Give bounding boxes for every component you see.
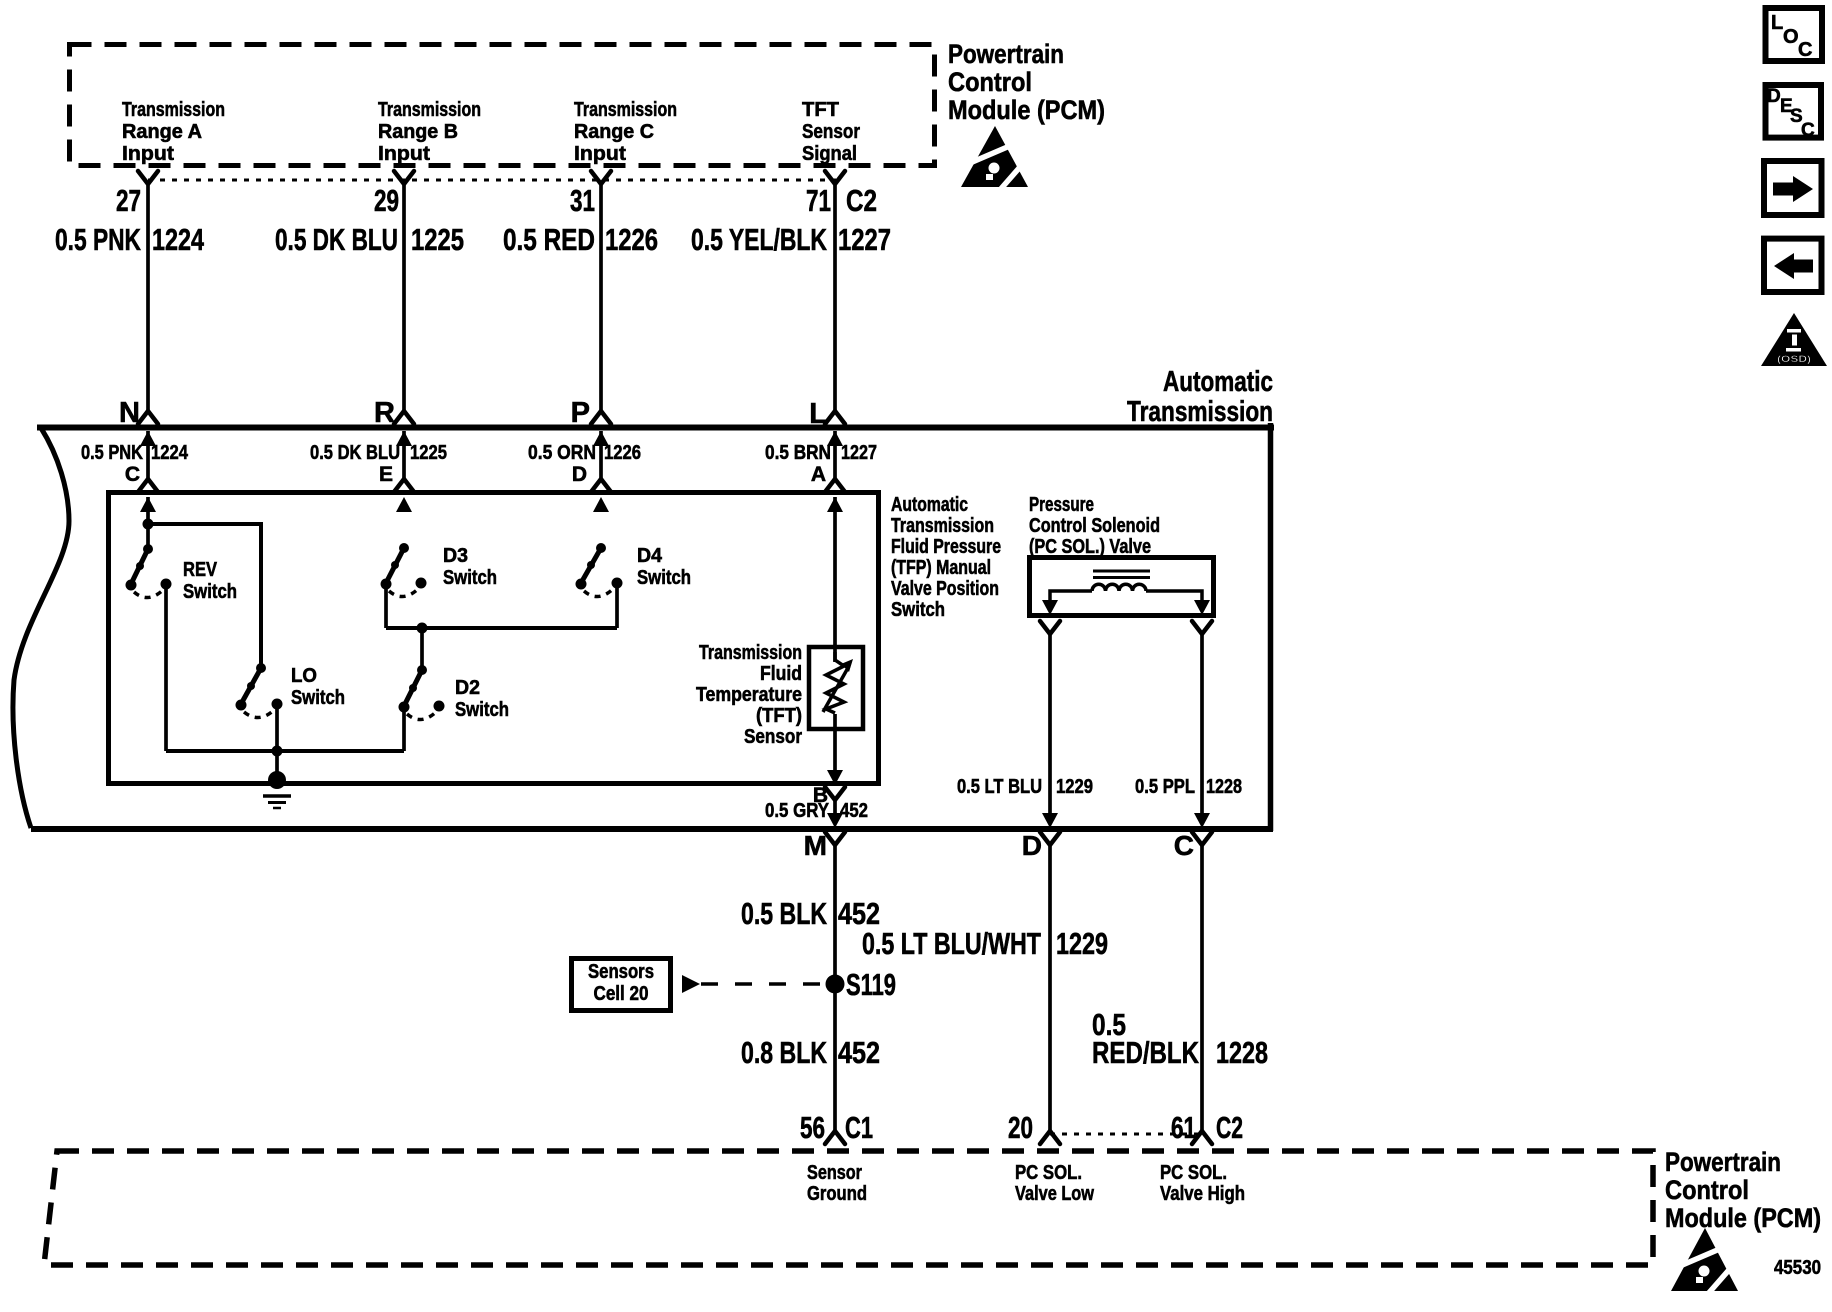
ESD symbol top	[961, 126, 1028, 191]
fork pin 61	[1192, 1131, 1212, 1144]
label Automatic Transmission Fluid Pressure (TFP) Manual Valve Position Switch	[891, 494, 1001, 621]
fork pin 71	[825, 171, 845, 184]
svg-text:1229: 1229	[1056, 926, 1108, 961]
svg-text:Transmission: Transmission	[1127, 396, 1273, 428]
svg-text:Powertrain: Powertrain	[948, 39, 1064, 69]
wire 0.5 YEL/BLK 1227	[833, 184, 837, 411]
svg-text:C: C	[1174, 830, 1194, 861]
svg-text:D: D	[572, 463, 587, 486]
TFT sensor thermistor element	[823, 652, 853, 713]
svg-text:RED/BLK: RED/BLK	[1092, 1035, 1199, 1070]
svg-text:1227: 1227	[838, 222, 891, 257]
svg-text:31: 31	[570, 183, 595, 218]
arrow into TFP switch C	[140, 497, 156, 512]
arrow into transmission N	[140, 431, 156, 446]
arrow at transmission box bottom (M)	[827, 813, 843, 828]
wire TFT sensor to B	[833, 714, 837, 771]
fork PC SOL low	[1040, 621, 1060, 634]
dotted connector line C2 top	[148, 179, 836, 182]
svg-text:Cell 20: Cell 20	[594, 983, 649, 1005]
wire 0.5 RED 1226	[599, 184, 603, 411]
wire L to A	[833, 431, 837, 481]
label 0.5 PNK 1224	[55, 222, 205, 257]
svg-text:Input: Input	[378, 143, 430, 165]
wire R to E	[402, 431, 406, 481]
svg-text:0.5 BLK: 0.5 BLK	[741, 896, 827, 931]
wire D2 left contact down	[402, 707, 406, 751]
dashed reference wire	[701, 982, 824, 986]
svg-text:45530: 45530	[1774, 1257, 1821, 1279]
svg-text:Transmission: Transmission	[378, 99, 481, 121]
arrow at transmission box bottom (D)	[1042, 813, 1058, 828]
label TFT Sensor Signal	[802, 99, 860, 165]
svg-text:71: 71	[806, 183, 831, 218]
arrow into transmission P	[593, 431, 609, 446]
label D2 Switch	[455, 677, 509, 721]
svg-text:Valve Position: Valve Position	[891, 578, 999, 600]
transmission box wavy left edge	[13, 428, 69, 828]
svg-text:Switch: Switch	[443, 567, 497, 589]
label LO Switch	[291, 665, 345, 709]
svg-text:Range B: Range B	[378, 121, 458, 143]
svg-text:O: O	[1783, 26, 1799, 48]
fork pin 27	[138, 171, 158, 184]
D2 switch	[399, 665, 445, 720]
label 0.5 PPL 1228	[1135, 776, 1242, 798]
label Powertrain Control Module (PCM) bottom	[1665, 1147, 1821, 1233]
arrow into TFP switch D	[593, 497, 609, 512]
wire D4 right contact riser	[615, 584, 619, 628]
PC SOL valve box	[1030, 558, 1214, 616]
label Automatic Transmission	[1127, 366, 1273, 428]
svg-text:0.5 PNK: 0.5 PNK	[81, 442, 143, 464]
fork pin P	[591, 411, 611, 424]
svg-text:E: E	[379, 463, 393, 486]
svg-text:Sensors: Sensors	[588, 961, 654, 983]
label D3 Switch	[443, 545, 497, 589]
svg-text:Range C: Range C	[574, 121, 654, 143]
wire B to M	[833, 800, 837, 813]
icon right-arrow box	[1764, 161, 1822, 215]
label 0.5 DK BLU 1225 (inner)	[310, 442, 447, 464]
label 0.5 BLK 452	[741, 896, 880, 931]
svg-text:Valve Low: Valve Low	[1015, 1183, 1094, 1205]
svg-text:1228: 1228	[1206, 776, 1242, 798]
wire P to D	[599, 431, 603, 481]
fork pin D	[591, 479, 611, 492]
svg-text:Automatic: Automatic	[891, 494, 968, 516]
svg-text:0.5 YEL/BLK: 0.5 YEL/BLK	[691, 222, 827, 257]
fork pin 56	[825, 1131, 845, 1144]
TFT sensor box	[809, 647, 863, 729]
svg-text:Switch: Switch	[183, 581, 237, 603]
svg-text:1229: 1229	[1056, 776, 1093, 798]
PCM box (top, dashed)	[70, 45, 935, 166]
wire 0.5 DK BLU 1225	[402, 184, 406, 411]
svg-text:P: P	[571, 397, 590, 429]
fork pin E	[394, 479, 414, 492]
svg-text:Module (PCM): Module (PCM)	[948, 95, 1105, 125]
fork pin 29	[394, 171, 414, 184]
label Sensor Ground	[807, 1162, 867, 1205]
wire LO right contact to ground	[275, 704, 279, 780]
label Transmission Range A Input	[122, 99, 225, 165]
svg-text:D2: D2	[455, 677, 480, 699]
transmission box right edge	[1268, 423, 1274, 831]
wire D to PCM 20	[1048, 845, 1052, 1131]
fork pin C bottom	[1192, 832, 1212, 845]
LO switch	[236, 663, 283, 718]
wire 0.5 PNK 1224 (PCM to transmission)	[146, 184, 150, 411]
arrow into transmission R	[396, 431, 412, 446]
svg-text:Automatic: Automatic	[1163, 366, 1273, 398]
svg-text:TFT: TFT	[802, 99, 839, 121]
wire M to PCM 56	[833, 845, 837, 1131]
svg-text:Input: Input	[574, 143, 626, 165]
svg-text:REV: REV	[183, 559, 218, 581]
svg-text:Sensor: Sensor	[744, 726, 802, 748]
svg-text:D: D	[1022, 830, 1042, 861]
wire REV right contact down	[164, 584, 168, 751]
svg-text:Ground: Ground	[807, 1183, 867, 1205]
svg-text:Sensor: Sensor	[802, 121, 860, 143]
arrow at TFP box bottom (B)	[827, 770, 843, 785]
svg-text:Switch: Switch	[891, 599, 945, 621]
svg-text:PC SOL.: PC SOL.	[1160, 1162, 1227, 1184]
arrow at transmission box bottom (C)	[1194, 813, 1210, 828]
svg-text:D3: D3	[443, 545, 468, 567]
svg-text:Fluid: Fluid	[760, 663, 802, 685]
svg-text:D: D	[1767, 86, 1781, 107]
fork pin 20	[1040, 1131, 1060, 1144]
arrow into TFP switch A	[827, 497, 843, 512]
svg-text:(OSD): (OSD)	[1777, 354, 1811, 364]
D4 switch	[576, 543, 623, 597]
node junction C branch	[143, 519, 154, 530]
fork pin D bottom	[1040, 832, 1060, 845]
svg-text:C: C	[1801, 120, 1815, 141]
fork pin R	[394, 411, 414, 424]
pin number 56 / C1	[800, 1110, 873, 1145]
svg-text:27: 27	[116, 183, 141, 218]
svg-text:LO: LO	[291, 665, 317, 687]
svg-text:0.5 PNK: 0.5 PNK	[55, 222, 141, 257]
label Transmission Range B Input	[378, 99, 481, 165]
svg-text:Pressure: Pressure	[1029, 494, 1094, 516]
arrow into TFP switch E	[396, 497, 412, 512]
transmission box top edge	[37, 425, 1274, 431]
svg-text:Fluid Pressure: Fluid Pressure	[891, 536, 1001, 558]
label 0.5 PNK 1224 (inner)	[81, 442, 189, 464]
label Pressure Control Solenoid (PC SOL.) Valve	[1029, 494, 1160, 558]
PC SOL coil	[1050, 571, 1202, 602]
svg-text:Control Solenoid: Control Solenoid	[1029, 515, 1160, 537]
svg-text:A: A	[811, 463, 826, 486]
node splice S119	[826, 975, 845, 994]
svg-text:Valve High: Valve High	[1160, 1183, 1245, 1205]
label D4 Switch	[637, 545, 691, 589]
svg-text:M: M	[804, 830, 827, 861]
svg-text:(TFP) Manual: (TFP) Manual	[891, 557, 991, 579]
fork PC SOL high	[1192, 621, 1212, 634]
svg-text:1224: 1224	[152, 222, 205, 257]
label Transmission Fluid Temperature (TFT) Sensor	[696, 642, 802, 748]
label REV Switch	[183, 559, 237, 603]
arrow into transmission L	[827, 431, 843, 446]
svg-text:452: 452	[838, 1035, 880, 1070]
wire N to C	[146, 431, 150, 481]
svg-text:1225: 1225	[410, 442, 447, 464]
svg-text:L: L	[1771, 12, 1783, 34]
svg-text:29: 29	[374, 183, 399, 218]
label 0.5 RED 1226	[503, 222, 658, 257]
node junction to D2	[417, 623, 428, 634]
wire 0.5 PPL 1228	[1200, 634, 1204, 813]
wire A to TFT sensor	[833, 497, 837, 662]
D3 switch	[381, 543, 427, 597]
fork pin A	[825, 479, 845, 492]
fork pin M	[825, 832, 845, 845]
svg-text:Signal: Signal	[802, 143, 857, 165]
label 0.5 LT BLU 1229	[957, 776, 1093, 798]
svg-text:Control: Control	[1665, 1175, 1749, 1205]
fork pin N	[138, 411, 158, 424]
svg-text:Input: Input	[122, 143, 174, 165]
REV switch	[126, 544, 172, 598]
svg-text:Switch: Switch	[637, 567, 691, 589]
svg-text:452: 452	[840, 800, 868, 822]
label 0.5 RED/BLK 1228	[1092, 1007, 1268, 1070]
label 0.5 LT BLU/WHT 1229	[862, 926, 1108, 961]
svg-text:D4: D4	[637, 545, 663, 567]
svg-text:56: 56	[800, 1110, 825, 1145]
svg-text:(TFT): (TFT)	[756, 705, 802, 727]
wire branch to LO switch	[148, 524, 261, 668]
svg-text:Range A: Range A	[122, 121, 202, 143]
label 0.8 BLK 452	[741, 1035, 880, 1070]
label 0.5 GRY 452	[765, 800, 868, 822]
svg-text:0.5 LT BLU/WHT: 0.5 LT BLU/WHT	[862, 926, 1041, 961]
svg-text:Switch: Switch	[291, 687, 345, 709]
svg-text:0.5 GRY: 0.5 GRY	[765, 800, 830, 822]
svg-text:1225: 1225	[411, 222, 464, 257]
label 0.5 YEL/BLK 1227	[691, 222, 891, 257]
svg-text:C: C	[125, 463, 140, 486]
fork pin L	[825, 411, 845, 424]
svg-text:61: 61	[1171, 1110, 1196, 1145]
svg-text:1226: 1226	[605, 222, 658, 257]
fork pin C	[138, 479, 158, 492]
fork pin 31	[591, 171, 611, 184]
svg-text:Powertrain: Powertrain	[1665, 1147, 1781, 1177]
svg-text:0.5 ORN: 0.5 ORN	[528, 442, 596, 464]
label Transmission Range C Input	[574, 99, 677, 165]
svg-text:0.5 DK BLU: 0.5 DK BLU	[310, 442, 400, 464]
svg-text:Switch: Switch	[455, 699, 509, 721]
svg-text:Transmission: Transmission	[891, 515, 994, 537]
arrow coil low lead	[1042, 600, 1058, 615]
wire junction to D2	[420, 628, 424, 670]
Sensors Cell 20 reference box	[572, 959, 671, 1011]
svg-text:Transmission: Transmission	[122, 99, 225, 121]
svg-text:0.5 LT BLU: 0.5 LT BLU	[957, 776, 1042, 798]
svg-text:Sensor: Sensor	[807, 1162, 862, 1184]
svg-text:C1: C1	[845, 1110, 873, 1145]
pin number 61 / C2	[1171, 1110, 1243, 1145]
fork pin B	[825, 787, 845, 800]
arrow from sensors cell	[682, 975, 700, 993]
icon left-arrow box	[1764, 239, 1822, 292]
svg-text:Temperature: Temperature	[696, 684, 802, 706]
icon OSD triangle	[1761, 313, 1827, 366]
wire D3 left contact down	[384, 584, 388, 628]
label 0.5 BRN 1227 (inner)	[765, 442, 877, 464]
svg-text:0.5 PPL: 0.5 PPL	[1135, 776, 1195, 798]
svg-text:C2: C2	[1216, 1110, 1243, 1145]
svg-text:0.5 BRN: 0.5 BRN	[765, 442, 831, 464]
svg-text:1226: 1226	[604, 442, 641, 464]
icon DESC box	[1766, 85, 1822, 141]
svg-text:(PC SOL.) Valve: (PC SOL.) Valve	[1029, 536, 1151, 558]
label 0.5 DK BLU 1225	[275, 222, 464, 257]
label PC SOL. Valve Low	[1015, 1162, 1094, 1205]
svg-text:0.5 RED: 0.5 RED	[503, 222, 595, 257]
label PC SOL. Valve High	[1160, 1162, 1245, 1205]
svg-text:1224: 1224	[151, 442, 189, 464]
svg-text:PC SOL.: PC SOL.	[1015, 1162, 1082, 1184]
wire 0.5 LT BLU 1229	[1048, 634, 1052, 813]
svg-text:S119: S119	[846, 967, 896, 1002]
svg-text:1228: 1228	[1216, 1035, 1268, 1070]
ground	[263, 771, 291, 808]
transmission box bottom edge	[31, 826, 1273, 832]
wire link D3 to D4	[386, 626, 617, 630]
svg-text:C: C	[1798, 39, 1812, 61]
svg-text:Module (PCM): Module (PCM)	[1665, 1203, 1821, 1233]
arrow coil high lead	[1194, 600, 1210, 615]
PCM box (bottom, dashed)	[44, 1151, 1653, 1265]
dotted connector line C2 bottom	[1050, 1133, 1202, 1136]
svg-text:Transmission: Transmission	[574, 99, 677, 121]
wire C to PCM 61	[1200, 845, 1204, 1131]
wire C to REV switch	[146, 497, 150, 549]
svg-text:1227: 1227	[841, 442, 877, 464]
svg-text:20: 20	[1008, 1110, 1033, 1145]
svg-text:0.8 BLK: 0.8 BLK	[741, 1035, 827, 1070]
svg-text:C2: C2	[846, 183, 877, 218]
svg-text:Transmission: Transmission	[699, 642, 802, 664]
wire bottom link (REV to D2)	[166, 749, 404, 753]
node junction at LO/ground	[272, 746, 283, 757]
label 0.5 ORN 1226 (inner)	[528, 442, 641, 464]
icon LOC box	[1766, 8, 1823, 61]
label Powertrain Control Module (PCM) top	[948, 39, 1105, 125]
svg-text:Control: Control	[948, 67, 1032, 97]
svg-text:0.5 DK BLU: 0.5 DK BLU	[275, 222, 398, 257]
ESD symbol bottom	[1671, 1228, 1738, 1295]
TFP manual valve position switch box	[109, 493, 879, 784]
